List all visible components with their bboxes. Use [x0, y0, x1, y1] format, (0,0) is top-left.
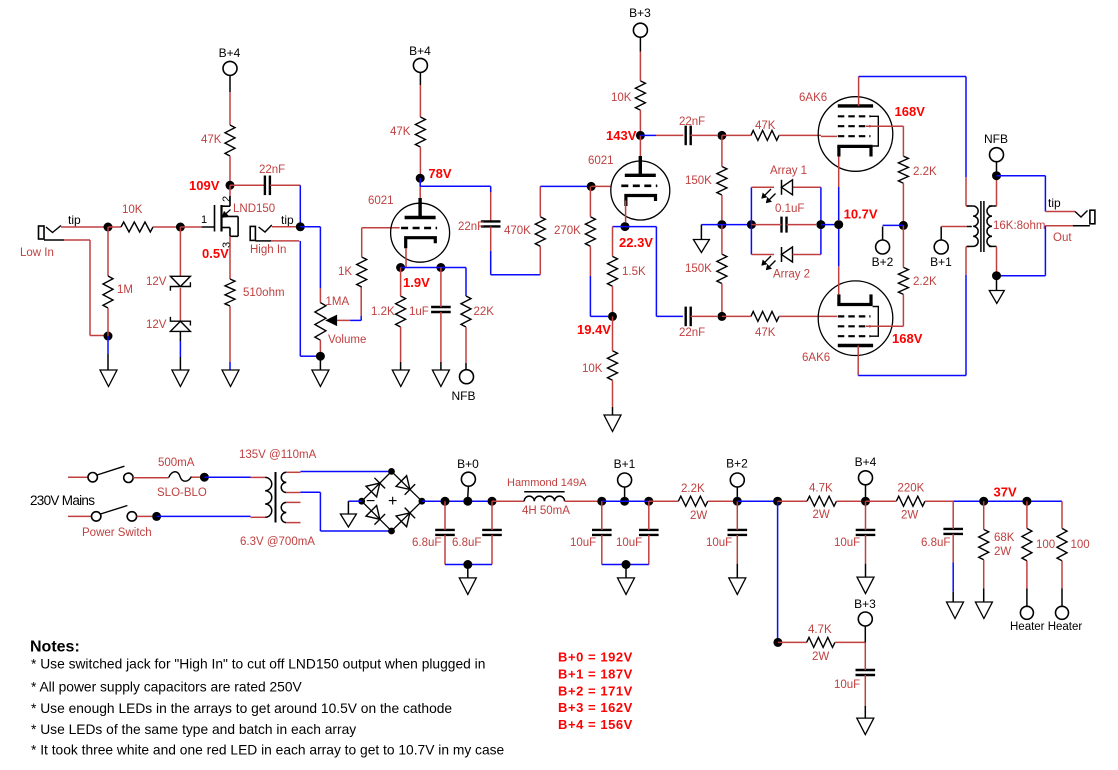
wire 1M node to ground	[107, 336, 109, 370]
node 37V b	[1022, 497, 1031, 506]
pin 1 label	[201, 214, 207, 226]
label 22nF (LND150 out)	[259, 164, 285, 176]
output jack Out	[1073, 210, 1095, 226]
note line 3	[31, 701, 452, 716]
capacitor 22nF interstage A	[481, 221, 501, 226]
tube 6021 second stage	[611, 161, 670, 220]
label tip (High In)	[281, 213, 294, 227]
svg-text:B+0 = 192V: B+0 = 192V	[558, 650, 633, 665]
wire 4.7K to B+4 node	[837, 500, 862, 502]
label 2W (B+4)	[813, 509, 830, 521]
ground (zeners)	[172, 370, 189, 387]
node bridge left	[358, 498, 365, 505]
ground (510ohm)	[222, 370, 239, 387]
svg-text:B+4: B+4	[409, 44, 431, 58]
label tip (Low In)	[68, 213, 81, 227]
diode LED Array 1	[782, 180, 793, 195]
svg-text:B+2: B+2	[726, 457, 748, 471]
label Hammond 149A	[507, 477, 587, 489]
svg-text:Heater Heater: Heater Heater	[1010, 621, 1082, 633]
label 10uF (B+1 a)	[570, 537, 596, 549]
label 143V	[606, 128, 637, 143]
svg-text:12V: 12V	[146, 276, 167, 288]
wire B+0 to choke	[492, 500, 524, 502]
resistor 10K input	[121, 222, 153, 232]
label tip (Out)	[1048, 196, 1061, 210]
wire Array2 bottom wire	[751, 254, 821, 256]
wire branch down to B+3	[777, 501, 779, 638]
svg-text:Out: Out	[1053, 232, 1072, 244]
label 6AK6 (lower)	[802, 352, 830, 364]
label 10uF (B+4)	[834, 537, 860, 549]
svg-text:10K: 10K	[122, 204, 143, 216]
wire High In sleeve down	[271, 241, 316, 356]
ground (B+4)	[857, 577, 874, 594]
voltage note B+3	[558, 700, 633, 715]
ground (1uF)	[432, 370, 449, 387]
svg-text:78V: 78V	[428, 166, 451, 181]
wire 47K to 109V node	[229, 156, 231, 181]
label 6021 (stage 2)	[588, 155, 614, 167]
wire 10K tail to ground	[612, 380, 614, 415]
wire upper plate to OPT	[859, 77, 970, 207]
svg-text:47K: 47K	[390, 126, 411, 138]
svg-text:B+2: B+2	[872, 255, 894, 269]
wire gate node to MOSFET	[180, 226, 214, 228]
terminal B+1 (top section)	[934, 240, 948, 254]
wire 19.4V to 10K tail	[612, 316, 614, 350]
node coupling lower	[717, 312, 726, 321]
svg-text:tip: tip	[281, 213, 294, 227]
label 16K:8ohm	[993, 220, 1045, 232]
wire 1.2K to ground	[400, 268, 402, 371]
potentiometer 1MA Volume	[315, 303, 326, 341]
svg-text:47K: 47K	[755, 120, 776, 132]
svg-text:1M: 1M	[117, 284, 133, 296]
voltage note B+2	[558, 683, 633, 698]
terminal NFB (top)	[990, 148, 1004, 162]
wire B+4 to 47K	[229, 75, 231, 125]
node LED bias junction	[717, 220, 726, 229]
resistor 22K NFB	[461, 296, 471, 327]
node cap 6.8uF second	[488, 497, 497, 506]
svg-text:NFB: NFB	[984, 132, 1008, 146]
bridge diode left-bottom	[366, 506, 385, 525]
wire 100 first leads	[1026, 501, 1028, 606]
wire Low In tip to node	[61, 226, 106, 228]
wire cathode lead upper 6AK6	[838, 157, 840, 221]
capacitor 22nF (LND150 out)	[265, 176, 270, 196]
svg-text:B+1 = 187V: B+1 = 187V	[558, 666, 633, 681]
label 6021 (stage 1)	[368, 195, 394, 207]
label Array 2	[773, 269, 810, 281]
label 4.7K (B+3)	[808, 624, 832, 636]
wire branch to 4.7K B+4	[778, 500, 807, 502]
node bridge bottom	[388, 528, 395, 535]
mains transformer core	[275, 472, 277, 523]
ground (bridge)	[340, 514, 356, 527]
label 19.4V	[577, 322, 611, 337]
node cathode stage2	[621, 222, 630, 231]
note line 1	[31, 657, 485, 672]
label 2W (220K)	[901, 510, 918, 522]
svg-text:0.5V: 0.5V	[202, 246, 229, 261]
svg-text:1.9V: 1.9V	[403, 275, 430, 290]
label B+4 (stage1)	[409, 44, 431, 58]
svg-text:10uF: 10uF	[616, 537, 642, 549]
wire 22nF lower to node	[691, 315, 717, 317]
wire drain lead	[229, 185, 231, 196]
svg-text:10uF: 10uF	[834, 679, 860, 691]
label 10.7V	[844, 207, 878, 222]
svg-text:1.2K: 1.2K	[371, 306, 395, 318]
node 78V	[416, 174, 425, 183]
wire grid lead stage2	[591, 185, 611, 187]
wire Low In sleeve	[64, 240, 104, 336]
svg-text:B+2 = 171V: B+2 = 171V	[558, 683, 633, 698]
wire plate lead lower 6AK6	[857, 346, 859, 376]
svg-text:16K:8ohm: 16K:8ohm	[993, 220, 1045, 232]
label SLO-BLO	[157, 487, 207, 499]
node 1M bottom	[104, 332, 113, 341]
inductor choke Hammond 149A	[524, 492, 564, 501]
svg-text:2.2K: 2.2K	[913, 166, 937, 178]
mains transformer secondary 6.3V	[281, 502, 286, 522]
terminal NFB (bottom)	[460, 370, 474, 384]
svg-text:1.5K: 1.5K	[622, 266, 646, 278]
svg-text:150K: 150K	[685, 175, 712, 187]
wire 220K to 37V rail	[925, 500, 1062, 502]
node B+0	[463, 497, 472, 506]
svg-text:22K: 22K	[474, 306, 495, 318]
capacitor 10uF (B+2)	[728, 530, 748, 535]
wire plate lead stage2	[639, 135, 641, 175]
wire LED right rail	[820, 187, 822, 254]
svg-text:Low In: Low In	[20, 247, 54, 259]
wire secondary top	[996, 180, 998, 206]
zener diode 12V upper	[170, 276, 190, 291]
resistor 4.7K (B+4)	[807, 496, 837, 506]
node fuse output	[200, 473, 209, 482]
resistor 1M	[103, 276, 113, 308]
wire NFB node to Out tip	[997, 176, 1076, 212]
node 143V	[636, 131, 645, 140]
svg-text:37V: 37V	[994, 485, 1017, 500]
node B+3 branch	[773, 638, 782, 647]
wire 10uF B+2 leads	[736, 501, 738, 578]
terminal B+3 (top)	[633, 23, 647, 37]
wire B+2 stub	[883, 225, 904, 240]
resistor 2.2K upper screen	[898, 156, 908, 183]
ground (B+3)	[857, 718, 874, 735]
node LED rail right	[816, 220, 825, 229]
wire 1M top lead	[107, 227, 109, 276]
capacitor 6.8uF second	[482, 530, 502, 535]
node grid stage2	[587, 182, 596, 191]
mains transformer secondary 135V	[281, 472, 286, 492]
bridge diode left-top	[366, 478, 385, 497]
fuse 500mA	[169, 472, 192, 481]
svg-text:2W: 2W	[901, 510, 918, 522]
svg-text:500mA: 500mA	[158, 457, 195, 469]
wire switch to fuse	[133, 477, 169, 479]
wire cathode lead stage1	[405, 248, 407, 268]
output transformer primary	[967, 206, 978, 246]
terminal B+1 (psu)	[618, 473, 632, 487]
wire zener top lead	[179, 227, 181, 276]
bridge diode bottom-right	[396, 508, 415, 527]
capacitor 10uF (B+1 b)	[639, 530, 659, 535]
wire 47K lower to grid	[779, 315, 837, 317]
resistor 47K LND150 drain	[225, 125, 235, 156]
svg-text:47K: 47K	[755, 327, 776, 339]
terminal B+2 (top section)	[876, 240, 890, 254]
label 270K	[554, 225, 581, 237]
wire High In tip to node	[272, 226, 296, 228]
wire node to xfmr primary bottom	[157, 515, 266, 518]
ground (B+0)	[459, 578, 476, 595]
label B+1 (top section)	[930, 255, 952, 269]
resistor 470K	[535, 217, 545, 247]
wire node to xfmr primary top	[204, 476, 265, 478]
node B+1 ground	[622, 560, 631, 569]
wire B+1 stub to center tap	[941, 227, 972, 241]
svg-text:* It took three white and one: * It took three white and one red LED in…	[31, 743, 505, 758]
svg-text:tip: tip	[68, 213, 81, 227]
ground (1M)	[100, 370, 117, 387]
wire 6.8uF second leads	[491, 501, 493, 564]
voltage note B+1	[558, 666, 633, 681]
label 47K (stage1)	[390, 126, 411, 138]
svg-text:B+3: B+3	[629, 6, 651, 20]
wire 6.8uF first leads	[444, 501, 446, 564]
bridge - label	[366, 493, 375, 510]
svg-text:10uF: 10uF	[834, 537, 860, 549]
label 470K	[504, 225, 531, 237]
label 6.8uF (second)	[452, 537, 481, 549]
label 78V	[428, 166, 451, 181]
capacitor 10uF (B+3)	[856, 670, 876, 675]
node cathode stage1 (1uF)	[436, 263, 445, 272]
label B+2 (top section)	[872, 255, 894, 269]
label Low In	[20, 247, 54, 259]
node 10.7V cathodes	[834, 220, 843, 229]
resistor 220K	[896, 496, 925, 506]
svg-text:1K: 1K	[338, 266, 352, 278]
node secondary ground	[992, 271, 1001, 280]
svg-text:6021: 6021	[588, 155, 614, 167]
svg-text:22nF: 22nF	[259, 164, 285, 176]
wire LED left rail	[750, 187, 752, 254]
svg-text:6.8uF: 6.8uF	[921, 537, 950, 549]
label 1.2K	[371, 306, 395, 318]
svg-text:150K: 150K	[685, 263, 712, 275]
node cathode stage1 (1.2K)	[396, 263, 405, 272]
label 1.9V	[403, 275, 430, 290]
svg-text:10.7V: 10.7V	[844, 207, 878, 222]
node B+0 ground	[463, 560, 472, 569]
notes heading	[30, 639, 80, 656]
svg-text:B+3 = 162V: B+3 = 162V	[558, 700, 633, 715]
svg-text:SLO-BLO: SLO-BLO	[157, 487, 207, 499]
svg-text:6021: 6021	[368, 195, 394, 207]
wire 68K leads	[983, 501, 985, 602]
node 37V a	[979, 497, 988, 506]
svg-text:470K: 470K	[504, 225, 531, 237]
capacitor 22nF upper	[686, 126, 691, 146]
svg-text:220K: 220K	[898, 483, 925, 495]
ground (secondary)	[989, 291, 1004, 304]
wire lower plate to OPT	[858, 247, 969, 376]
label Heater Heater	[1010, 621, 1082, 633]
svg-text:6.3V @700mA: 6.3V @700mA	[240, 536, 315, 548]
svg-text:143V: 143V	[606, 128, 637, 143]
wire screen lead upper 6AK6	[866, 125, 899, 127]
capacitor 10uF (B+1 a)	[592, 530, 612, 535]
resistor 10K plate stage2	[635, 81, 645, 110]
label 22nF (upper)	[679, 116, 705, 128]
svg-text:68K: 68K	[994, 532, 1015, 544]
svg-text:510ohm: 510ohm	[243, 287, 285, 299]
svg-text:2W: 2W	[813, 509, 830, 521]
label 10K	[122, 204, 143, 216]
bridge rectifier frame	[362, 471, 422, 531]
label B+4 (psu)	[855, 455, 877, 469]
node mains bottom	[152, 512, 161, 521]
node cap 10uF first	[597, 497, 606, 506]
wire mains stub top	[68, 476, 88, 478]
wire 0.1uF leads	[751, 224, 816, 226]
label 510ohm	[243, 287, 285, 299]
node Low In / 1M top	[104, 223, 113, 232]
label 22nF (lower)	[679, 327, 705, 339]
svg-text:10uF: 10uF	[570, 537, 596, 549]
terminal B+4 (psu)	[859, 471, 873, 485]
LED arrows Array 1	[762, 189, 776, 203]
svg-text:4.7K: 4.7K	[809, 483, 833, 495]
wire 6.3V stub top	[286, 501, 300, 503]
label 500mA	[158, 457, 195, 469]
wire 109V to 22nF	[230, 184, 265, 186]
terminal Heater second	[1056, 606, 1069, 619]
node cap 6.8uF first	[441, 497, 450, 506]
resistor 4.7K (B+3)	[807, 637, 835, 647]
label 100 (first)	[1036, 539, 1055, 551]
ground (B+1)	[618, 578, 635, 595]
svg-text:B+1: B+1	[930, 255, 952, 269]
wire 270K leads	[590, 186, 608, 316]
ground (B+2)	[729, 578, 746, 595]
wire B+4 to 47K stage1	[419, 72, 421, 117]
wire 22nF to High In tip	[270, 185, 300, 223]
wire 510ohm to ground	[229, 306, 231, 370]
svg-text:1uF: 1uF	[409, 306, 429, 318]
voltage note B+4	[558, 717, 633, 732]
wire 78V to coupling cap	[420, 178, 491, 221]
wire switch bottom to node	[137, 515, 152, 517]
node branch B+3/B+4	[773, 497, 782, 506]
wire bridge minus to ground	[348, 501, 361, 514]
svg-text:B+4: B+4	[219, 46, 241, 60]
label Array 1	[770, 165, 807, 177]
transistor LND150	[215, 196, 239, 236]
wire mains stub bottom	[68, 515, 92, 517]
wire 1uF leads	[440, 268, 442, 371]
terminal B+4 (stage1)	[413, 58, 427, 72]
mains transformer primary	[265, 477, 272, 517]
label 135V @110mA	[239, 449, 317, 461]
svg-text:2W: 2W	[690, 510, 707, 522]
label 10K (plate)	[611, 92, 632, 104]
label 37V	[994, 485, 1017, 500]
node B+2	[733, 497, 742, 506]
label Out	[1053, 232, 1072, 244]
label B+1 (psu)	[614, 457, 636, 471]
label 0.1uF	[775, 203, 804, 215]
node pot bottom	[316, 352, 325, 361]
voltage note B+0	[558, 650, 633, 665]
svg-text:2W: 2W	[812, 651, 829, 663]
label 1K	[338, 266, 352, 278]
svg-text:135V @110mA: 135V @110mA	[239, 449, 317, 461]
terminal B+0	[461, 472, 475, 486]
wire 6.3V stub bottom	[286, 522, 300, 524]
svg-text:22nF: 22nF	[679, 116, 705, 128]
label 150K (lower)	[685, 263, 712, 275]
svg-text:6AK6: 6AK6	[802, 352, 830, 364]
wire 47K to 78V node	[419, 147, 421, 174]
wire B+1 ground stem	[625, 565, 627, 578]
label 47K (LND150)	[201, 134, 222, 146]
capacitor 0.1uF	[782, 217, 787, 233]
label 168V (lower)	[892, 331, 923, 346]
label B+3 (psu)	[854, 597, 876, 611]
resistor 270K	[585, 217, 595, 247]
wire screen lead lower 6AK6	[866, 325, 899, 327]
resistor 10K tail	[608, 351, 618, 381]
bridge + label	[388, 493, 397, 510]
svg-text:B+4 = 156V: B+4 = 156V	[558, 717, 633, 732]
wire B+4 stub	[865, 485, 867, 497]
wire pot bottom	[319, 340, 321, 352]
label 12V upper	[146, 276, 167, 288]
node B+2 screen	[899, 221, 908, 230]
svg-text:High In: High In	[250, 244, 286, 256]
svg-text:47K: 47K	[201, 134, 222, 146]
wire plate lead upper 6AK6	[858, 77, 860, 106]
wire B+2 to branch node	[737, 500, 777, 502]
node LED rail left	[747, 220, 756, 229]
label 2.2K (upper)	[913, 166, 937, 178]
svg-text:168V: 168V	[892, 331, 923, 346]
label 47K (upper)	[755, 120, 776, 132]
label 109V	[189, 178, 220, 193]
resistor 2.2K lower screen	[898, 267, 908, 294]
node bridge top	[388, 468, 395, 475]
wire 10K to 143V node	[639, 110, 641, 131]
label NFB (top)	[984, 132, 1008, 146]
label B+2 (psu)	[726, 457, 748, 471]
resistor 47K lower grid	[751, 311, 779, 321]
label 22K	[474, 306, 495, 318]
svg-text:19.4V: 19.4V	[577, 322, 611, 337]
input jack High In	[250, 225, 272, 241]
wire 4.7K to B+3 junction	[835, 641, 865, 643]
ground (10K tail)	[604, 415, 621, 432]
wire 150K upper leads	[721, 135, 723, 220]
svg-text:22.3V: 22.3V	[619, 235, 653, 250]
node B+4	[861, 497, 870, 506]
